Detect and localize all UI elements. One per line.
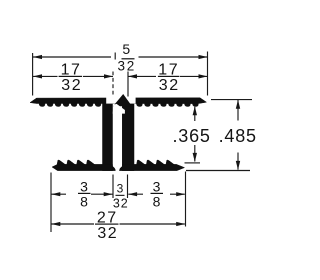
- extension line bottom-right: [185, 172, 187, 227]
- top flange bar: [30, 98, 207, 104]
- arrowheads .485: [236, 100, 240, 109]
- fraction bar 3/8 right: [151, 193, 164, 194]
- slot notch: inner wedge cut: [113, 104, 125, 114]
- svg-text:32: 32: [159, 77, 180, 94]
- dimension line 5/32 left segment: [33, 56, 111, 58]
- bottom left flange teeth: [57, 160, 95, 165]
- bottom right flange teeth: [137, 160, 175, 165]
- right wall: [122, 103, 134, 171]
- extension line center-left (dashed): [112, 72, 114, 96]
- extension line .485 top: [211, 99, 252, 101]
- dimension line 17/32 right: [128, 75, 207, 77]
- extension tick at 5/32 left: [114, 53, 116, 60]
- dimension line .365: [194, 107, 196, 162]
- arrowheads 27/32: [51, 222, 60, 226]
- svg-text:3: 3: [117, 182, 124, 196]
- fraction bar 27/32: [95, 224, 119, 225]
- svg-text:.485: .485: [219, 126, 257, 146]
- fraction bar 3/32: [116, 195, 125, 196]
- arrowheads .365: [193, 106, 197, 115]
- fraction bar 17/32 left: [59, 76, 83, 77]
- dimension line 3/8 left: [51, 193, 112, 195]
- top flange teeth right: [137, 103, 199, 106]
- extension line under .365: [185, 162, 201, 164]
- dimension line 27/32: [51, 223, 185, 225]
- svg-text:32: 32: [117, 59, 136, 74]
- arrowheads 5/32 row: [33, 55, 42, 59]
- extension line top-left: [32, 53, 34, 96]
- extension line .485 bottom: [186, 170, 250, 172]
- svg-text:32: 32: [113, 196, 129, 210]
- svg-text:5: 5: [122, 41, 130, 57]
- dimension line .485: [237, 100, 239, 170]
- dimension line 3/8 right: [128, 193, 185, 195]
- left wall: [103, 103, 113, 171]
- svg-text:.365: .365: [172, 126, 210, 146]
- fraction bar 3/8 left: [78, 193, 91, 194]
- arrowheads 17/32 right: [128, 74, 137, 78]
- bottom left flange bar: [52, 164, 113, 170]
- svg-text:8: 8: [153, 193, 161, 209]
- dimension line 5/32 right segment: [139, 56, 208, 58]
- bottom right flange bar: [122, 164, 184, 170]
- extension tick bottom center-right: [127, 175, 129, 199]
- svg-text:3: 3: [80, 178, 88, 194]
- fraction bar 5/32: [122, 58, 135, 59]
- extension line bottom-left: [50, 173, 52, 233]
- center peak: [113, 94, 132, 106]
- svg-text:3: 3: [153, 178, 161, 194]
- arrowheads 3/8 right: [128, 192, 137, 196]
- svg-text:32: 32: [61, 77, 82, 94]
- svg-text:8: 8: [80, 193, 88, 209]
- left wall foot: [113, 166, 116, 170]
- arrowheads 17/32 left: [33, 74, 42, 78]
- right wall foot: [119, 166, 122, 170]
- slot notch: bar cut around peak: [106, 97, 135, 103]
- extension tick center-right: [127, 72, 129, 97]
- fraction bar 17/32 right: [158, 76, 180, 77]
- extension line top-right: [207, 52, 209, 96]
- arrowheads 3/8 left: [51, 192, 60, 196]
- dimension line 17/32 left: [33, 75, 113, 77]
- top flange teeth left: [39, 103, 101, 106]
- extension tick bottom center-left: [112, 175, 114, 199]
- svg-text:32: 32: [97, 225, 118, 242]
